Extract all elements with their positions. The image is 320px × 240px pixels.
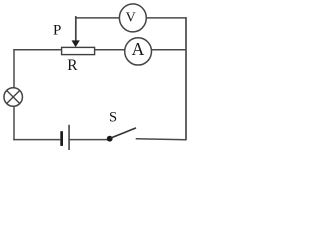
voltmeter U1 circle xyxy=(119,4,146,32)
rheostat R body xyxy=(62,47,95,54)
svg-text:S: S xyxy=(109,109,117,125)
switch S lever xyxy=(111,128,137,138)
wire: ammeter to right rail xyxy=(151,49,186,51)
wire: voltmeter to right rail xyxy=(146,17,186,19)
svg-text:P: P xyxy=(53,23,61,39)
wiper arrow head xyxy=(72,40,80,47)
battery negative plate (short thick) xyxy=(60,131,63,146)
wire: left rail lower (lamp to bottom corner) xyxy=(13,106,15,140)
switch S pivot dot xyxy=(107,136,113,142)
lamp X cross xyxy=(7,90,20,103)
svg-text:R: R xyxy=(67,57,78,74)
lamp circle xyxy=(4,88,23,107)
wire: left rail upper (corner to lamp) xyxy=(13,49,15,88)
wire: wiper top horizontal to voltmeter xyxy=(75,17,120,19)
wire: switch fixed contact to bottom right corner xyxy=(136,138,186,141)
svg-text:A: A xyxy=(132,39,145,59)
wire: right rail vertical xyxy=(185,17,187,140)
battery positive plate (long thin) xyxy=(68,125,69,150)
wire: battery to switch pivot xyxy=(70,139,108,141)
wire: bottom left to battery xyxy=(13,139,60,141)
wire: wiper vertical drop xyxy=(75,16,77,41)
svg-text:V: V xyxy=(126,10,136,25)
wire: left corner to rheostat xyxy=(13,49,61,51)
wire: rheostat to ammeter xyxy=(95,49,125,51)
ammeter U2 circle xyxy=(125,38,152,65)
